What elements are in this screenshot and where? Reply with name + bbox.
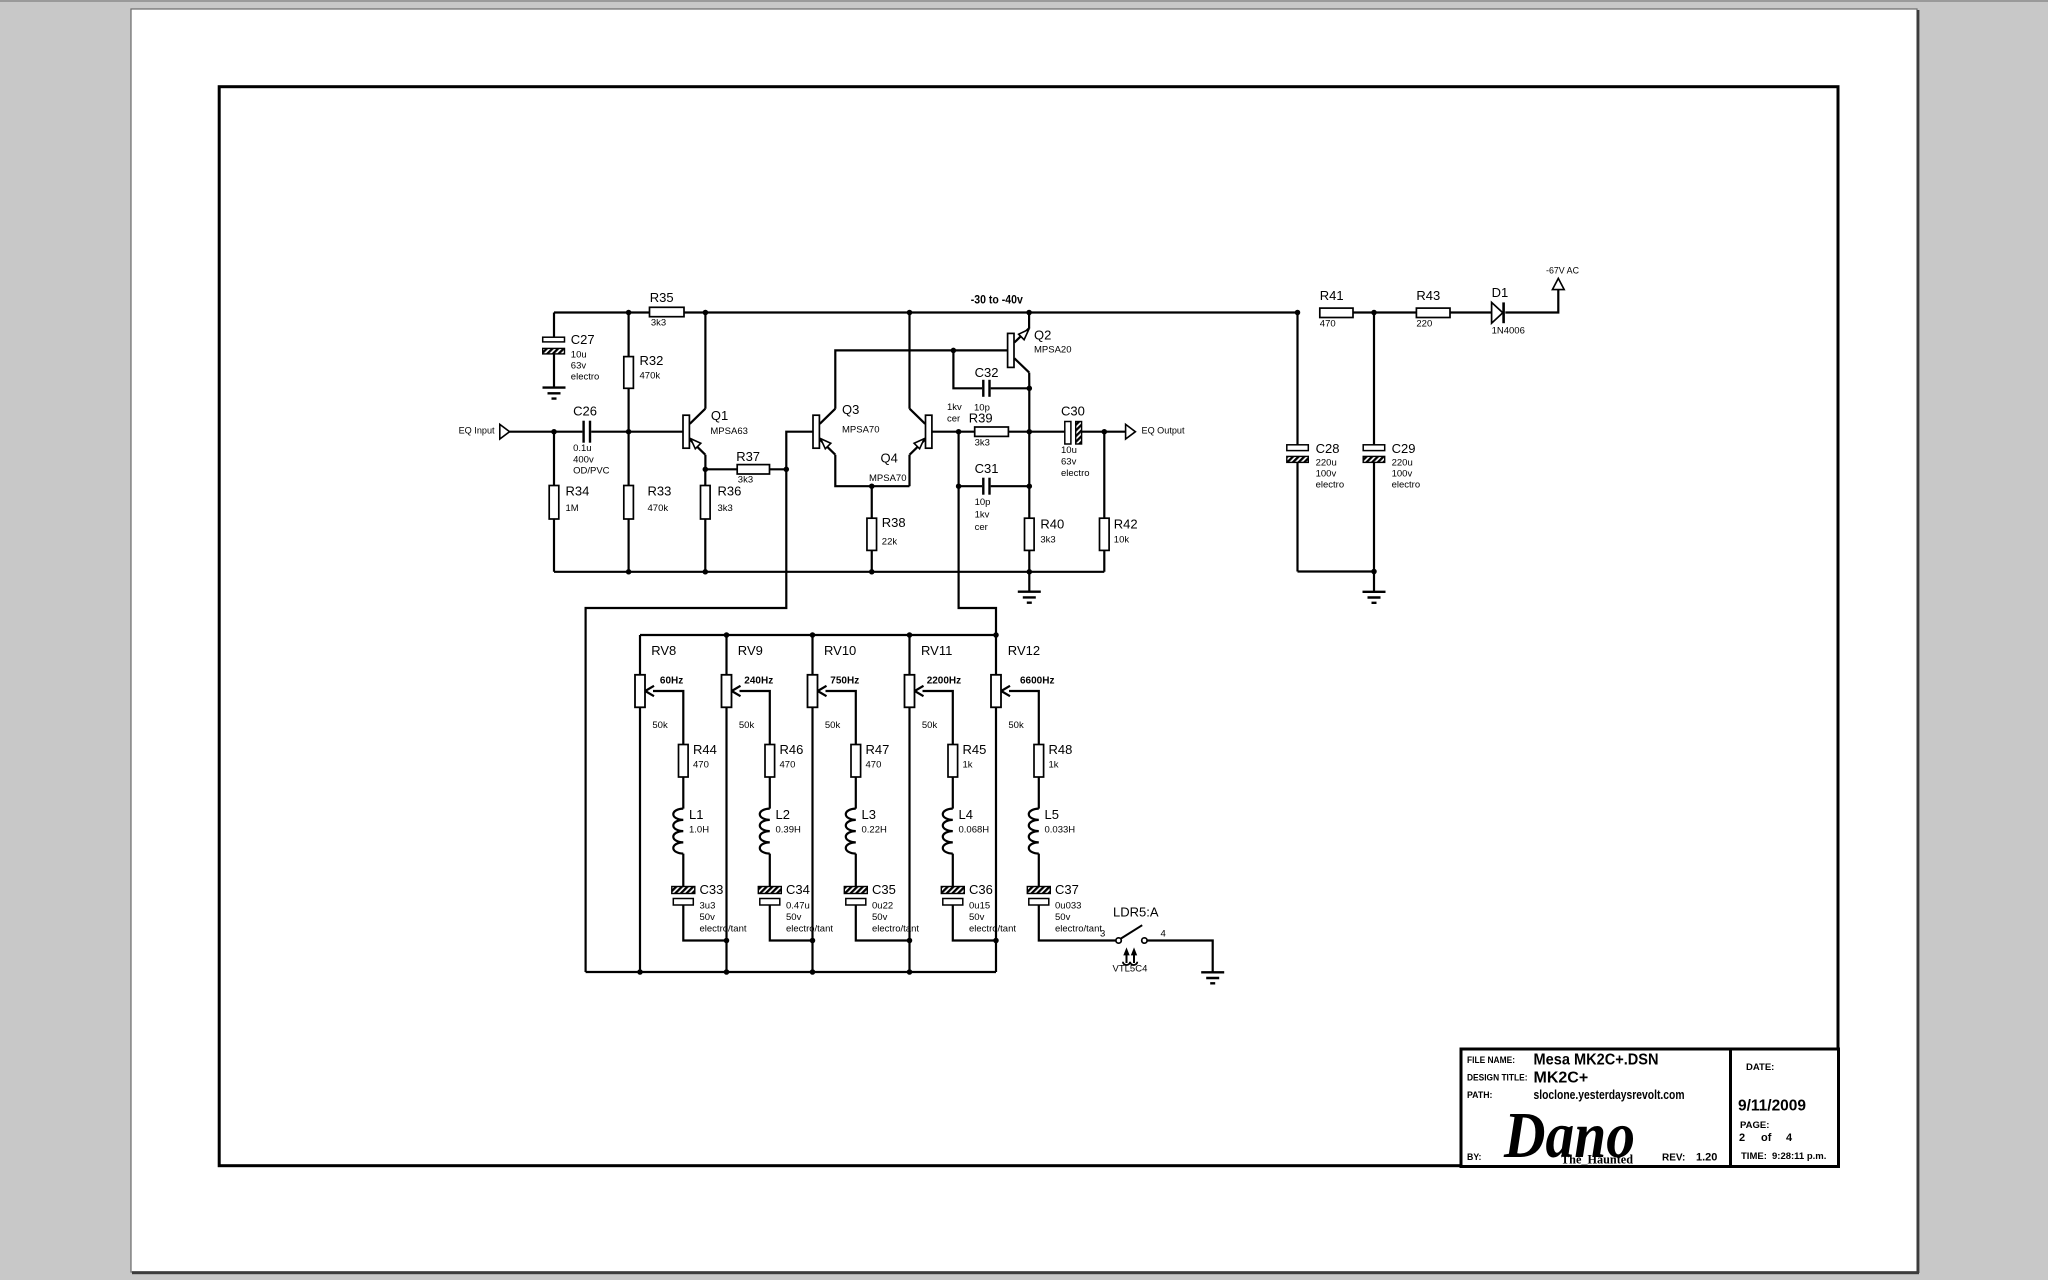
svg-text:electro/tant: electro/tant (786, 923, 833, 934)
wire Q4 emitter lead (908, 455, 910, 487)
wire R37 leads (705, 468, 786, 470)
wire feedback to EQ bottom bus (586, 469, 787, 972)
svg-text:50k: 50k (825, 720, 841, 731)
svg-text:470: 470 (780, 759, 796, 770)
svg-text:470: 470 (693, 759, 709, 770)
svg-text:0.47u: 0.47u (786, 900, 810, 911)
potentiometer RV12 (991, 643, 1054, 731)
resistor R34 (549, 484, 589, 520)
svg-text:PATH:: PATH: (1467, 1090, 1493, 1100)
svg-text:2200Hz: 2200Hz (927, 675, 961, 686)
title block time (1741, 1151, 1826, 1162)
svg-text:C37: C37 (1055, 882, 1079, 897)
wire R-L-C column 5 (1039, 777, 1116, 941)
svg-text:9/11/2009: 9/11/2009 (1738, 1098, 1806, 1115)
svg-text:RV8: RV8 (651, 643, 676, 658)
capacitor C36 (941, 882, 1016, 934)
wire output through C30 (1029, 431, 1125, 433)
svg-text:electro: electro (1061, 468, 1090, 479)
svg-text:9:28:11 p.m.: 9:28:11 p.m. (1772, 1151, 1826, 1162)
svg-text:Q1: Q1 (711, 408, 728, 423)
wire R42 leads (1103, 432, 1105, 572)
svg-text:C27: C27 (571, 332, 595, 347)
svg-text:50v: 50v (1055, 912, 1071, 923)
wire RV10 bottom lead (811, 707, 813, 972)
opto switch LDR5:A (1100, 905, 1166, 944)
capacitor C31 (975, 461, 999, 533)
wire R-L-C column 2 (770, 777, 813, 941)
svg-text:EQ Output: EQ Output (1142, 426, 1185, 437)
wire Q2 emitter to rail (1028, 313, 1030, 329)
capacitor C26 (573, 404, 610, 477)
svg-text:3k3: 3k3 (718, 503, 733, 514)
svg-text:22k: 22k (882, 536, 898, 547)
wire riser to Q3 base (786, 432, 813, 470)
svg-text:R33: R33 (648, 484, 672, 499)
svg-text:C33: C33 (700, 882, 724, 897)
svg-text:470: 470 (866, 759, 882, 770)
wire RV9 top lead (725, 635, 727, 675)
wire RV12 bottom lead (995, 707, 997, 972)
svg-text:3k3: 3k3 (975, 437, 990, 448)
svg-text:400v: 400v (573, 454, 594, 465)
inductor L1 (673, 807, 709, 854)
svg-text:R38: R38 (882, 515, 906, 530)
wire R43 to D1 segment (1450, 311, 1492, 313)
wire RV9 wiper branch (740, 691, 770, 745)
capacitor C34 (758, 882, 833, 934)
svg-text:Q3: Q3 (842, 402, 859, 417)
wire amp stage bottom rail (554, 571, 1104, 573)
svg-text:MPSA63: MPSA63 (710, 426, 748, 437)
wire RV11 top lead (908, 635, 910, 675)
wire RV10 wiper branch (826, 691, 856, 745)
svg-text:PAGE:: PAGE: (1740, 1120, 1769, 1131)
svg-text:1.20: 1.20 (1696, 1152, 1717, 1164)
svg-text:10p: 10p (975, 497, 991, 508)
svg-text:2: 2 (1739, 1132, 1745, 1144)
wire RV9 bottom lead (725, 707, 727, 972)
svg-text:3u3: 3u3 (700, 900, 716, 911)
wire Q3 emitter to bus (835, 455, 909, 487)
svg-text:electro: electro (571, 371, 600, 382)
resistor R46 (765, 742, 803, 777)
svg-text:C28: C28 (1316, 441, 1340, 456)
svg-text:100v: 100v (1392, 468, 1413, 479)
resistor R47 (851, 742, 889, 777)
svg-text:C31: C31 (975, 461, 999, 476)
wire Q4 base (932, 431, 959, 433)
svg-text:MPSA70: MPSA70 (869, 473, 907, 484)
potentiometer RV10 (808, 643, 860, 731)
wire LDR to ground (1147, 941, 1213, 973)
svg-text:50v: 50v (700, 912, 716, 923)
svg-text:63v: 63v (1061, 456, 1077, 467)
svg-text:0.22H: 0.22H (862, 824, 887, 835)
svg-text:electro/tant: electro/tant (969, 923, 1016, 934)
capacitor C29 (1363, 441, 1420, 490)
wire Q1 emitter node (704, 455, 706, 470)
wire C32 leads (953, 350, 1029, 388)
resistor R39 (969, 411, 1009, 449)
svg-text:C36: C36 (969, 882, 993, 897)
svg-text:electro: electro (1392, 479, 1421, 490)
wire drop to EQ filter bank (959, 432, 996, 675)
svg-text:50k: 50k (739, 720, 755, 731)
resistor R37 (736, 449, 769, 485)
resistor R32 (624, 353, 664, 388)
svg-text:The_Haunted: The_Haunted (1561, 1152, 1634, 1167)
wire RV10 top lead (811, 635, 813, 675)
ground at LDR (1201, 972, 1224, 983)
svg-text:C26: C26 (573, 404, 597, 419)
svg-text:220u: 220u (1316, 457, 1337, 468)
wire C29 column (1373, 313, 1375, 572)
ground below C27 (543, 388, 566, 399)
svg-text:FILE NAME:: FILE NAME: (1467, 1055, 1515, 1065)
drawing frame border (219, 87, 1838, 1166)
capacitor C32 (947, 365, 998, 424)
svg-text:4: 4 (1786, 1132, 1793, 1144)
potentiometer RV9 (722, 643, 774, 731)
wire R39 leads (959, 431, 1030, 433)
svg-text:Mesa MK2C+.DSN: Mesa MK2C+.DSN (1534, 1052, 1659, 1069)
EQ Output terminal (1126, 424, 1185, 439)
wire C28 C29 ground bus (1298, 572, 1375, 592)
wire Q3 collector to Q2 base (835, 350, 1007, 408)
svg-text:electro: electro (1316, 479, 1345, 490)
svg-text:0.1u: 0.1u (573, 443, 592, 454)
wire R34 leads (553, 432, 555, 572)
svg-text:C34: C34 (786, 882, 810, 897)
svg-text:50k: 50k (652, 720, 668, 731)
title block by / logo (1467, 1099, 1635, 1172)
resistor R38 (867, 515, 906, 550)
potentiometer RV11 (905, 643, 962, 731)
svg-text:RV9: RV9 (738, 643, 763, 658)
svg-text:R46: R46 (780, 742, 804, 757)
ground below C28 C29 (1363, 592, 1386, 603)
capacitor C28 (1287, 441, 1344, 490)
ground below R40 node (1018, 592, 1041, 603)
svg-text:R44: R44 (693, 742, 717, 757)
svg-text:10u: 10u (1061, 445, 1077, 456)
EQ Input terminal (459, 424, 510, 439)
svg-text:10u: 10u (571, 349, 587, 360)
wire Q4 collector to rail (908, 313, 910, 409)
svg-text:RV11: RV11 (921, 643, 952, 658)
transistor Q3 (813, 402, 880, 455)
svg-text:-67V AC: -67V AC (1546, 266, 1579, 277)
svg-text:3: 3 (1100, 928, 1105, 939)
svg-text:BY:: BY: (1467, 1152, 1482, 1162)
svg-text:470: 470 (1320, 318, 1336, 329)
title block (1461, 1049, 1839, 1167)
title block revision (1662, 1152, 1717, 1164)
net label -30 to -40v (971, 295, 1024, 307)
svg-text:0u15: 0u15 (969, 900, 990, 911)
svg-text:R35: R35 (650, 290, 674, 305)
svg-text:470k: 470k (648, 503, 669, 514)
wire RV12 wiper branch (1009, 691, 1039, 745)
svg-text:electro/tant: electro/tant (872, 923, 919, 934)
wire C28 column (1296, 313, 1298, 572)
wire R36 leads (704, 469, 706, 572)
svg-text:50v: 50v (969, 912, 985, 923)
wire RV11 wiper branch (923, 691, 953, 745)
wire R40 bottom and ground drop (1028, 550, 1030, 591)
svg-text:EQ Input: EQ Input (459, 426, 495, 437)
resistor R42 (1100, 517, 1138, 551)
svg-text:10p: 10p (974, 402, 990, 413)
-67V AC power terminal (1546, 266, 1579, 290)
resistor R44 (679, 742, 717, 777)
wire EQ bank bottom rail (586, 971, 996, 973)
svg-text:4: 4 (1161, 928, 1166, 939)
svg-text:LDR5:A: LDR5:A (1113, 905, 1159, 920)
junction dots (551, 310, 1377, 975)
svg-text:1kv: 1kv (947, 402, 962, 413)
svg-text:0.39H: 0.39H (776, 824, 801, 835)
svg-text:100v: 100v (1316, 468, 1337, 479)
wire C31 leads (959, 485, 1030, 487)
wire R32 leads (627, 313, 629, 432)
svg-text:1k: 1k (963, 759, 973, 770)
svg-text:RV10: RV10 (824, 643, 856, 658)
svg-text:1.0H: 1.0H (689, 824, 709, 835)
svg-text:C30: C30 (1061, 404, 1085, 419)
resistor R35 (650, 290, 685, 328)
wire R-L-C column 4 (953, 777, 996, 941)
svg-text:470k: 470k (640, 370, 661, 381)
svg-text:L2: L2 (776, 807, 790, 822)
svg-text:10k: 10k (1114, 534, 1130, 545)
svg-text:Q4: Q4 (881, 451, 898, 466)
inductor L5 (1029, 807, 1075, 854)
svg-text:50k: 50k (1008, 720, 1024, 731)
transistor Q4 (869, 409, 932, 484)
svg-text:6600Hz: 6600Hz (1020, 675, 1054, 686)
svg-text:MPSA70: MPSA70 (842, 424, 880, 435)
svg-text:220u: 220u (1392, 457, 1413, 468)
wire D1 to -67V AC terminal (1505, 290, 1558, 313)
svg-text:1kv: 1kv (975, 509, 990, 520)
svg-text:3k3: 3k3 (651, 317, 666, 328)
svg-text:-30 to -40v: -30 to -40v (971, 295, 1024, 307)
title block path (1467, 1087, 1685, 1102)
svg-text:R41: R41 (1320, 288, 1344, 303)
svg-text:1N4006: 1N4006 (1492, 325, 1525, 336)
wire R38 leads (871, 486, 873, 572)
svg-text:1k: 1k (1049, 759, 1059, 770)
capacitor C37 (1027, 882, 1102, 934)
svg-text:MPSA20: MPSA20 (1034, 344, 1072, 355)
svg-text:DESIGN TITLE:: DESIGN TITLE: (1467, 1072, 1528, 1082)
wire Q1 collector to rail (704, 313, 706, 409)
svg-text:Q2: Q2 (1034, 328, 1051, 343)
svg-text:0u033: 0u033 (1055, 900, 1081, 911)
resistor R40 (1025, 517, 1065, 551)
svg-text:cer: cer (975, 522, 988, 533)
svg-text:50v: 50v (786, 912, 802, 923)
inductor L2 (760, 807, 801, 854)
capacitor C27 (543, 332, 600, 382)
wire R33 leads (627, 432, 629, 572)
svg-text:R47: R47 (866, 742, 890, 757)
svg-text:R48: R48 (1049, 742, 1073, 757)
svg-text:L1: L1 (689, 807, 703, 822)
wire R41 to R43 segment (1353, 311, 1416, 313)
svg-text:RV12: RV12 (1008, 643, 1040, 658)
svg-text:REV:: REV: (1662, 1152, 1685, 1163)
svg-text:L3: L3 (862, 807, 876, 822)
wire R-L-C column 1 (683, 777, 726, 941)
svg-text:electro/tant: electro/tant (700, 923, 747, 934)
svg-text:R32: R32 (640, 353, 664, 368)
resistor R36 (701, 484, 742, 520)
wire R-L-C column 3 (856, 777, 910, 941)
title block design title (1467, 1070, 1588, 1087)
svg-text:3k3: 3k3 (738, 474, 753, 485)
wire RV8 wiper branch (653, 691, 683, 745)
wire C26 to Q1 base (591, 431, 683, 433)
capacitor C35 (844, 882, 919, 934)
svg-text:MK2C+: MK2C+ (1534, 1070, 1589, 1087)
title block page (1739, 1120, 1793, 1144)
title block date (1738, 1062, 1806, 1115)
svg-text:DATE:: DATE: (1746, 1062, 1774, 1073)
svg-text:R45: R45 (963, 742, 987, 757)
svg-text:50k: 50k (922, 720, 938, 731)
svg-text:C35: C35 (872, 882, 896, 897)
svg-text:R43: R43 (1416, 288, 1440, 303)
inductor L4 (943, 807, 989, 854)
svg-text:D1: D1 (1492, 285, 1509, 300)
svg-text:cer: cer (947, 413, 960, 424)
svg-text:3k3: 3k3 (1040, 534, 1055, 545)
svg-text:0.068H: 0.068H (959, 824, 990, 835)
wire EQ bank top rail (640, 634, 996, 636)
resistor R33 (624, 484, 672, 520)
svg-text:R36: R36 (718, 484, 742, 499)
title block file name (1467, 1052, 1659, 1069)
svg-text:C29: C29 (1392, 441, 1416, 456)
svg-text:0.033H: 0.033H (1045, 824, 1076, 835)
wire RV11 bottom lead (908, 707, 910, 972)
transistor Q2 (1008, 328, 1072, 373)
potentiometer RV8 (635, 643, 683, 731)
svg-text:VTL5C4: VTL5C4 (1113, 963, 1148, 974)
wire -30 to -40v supply rail (554, 311, 1298, 313)
svg-text:TIME:: TIME: (1741, 1151, 1767, 1162)
wire Q2 collector column (1028, 373, 1030, 519)
wire RV8 bottom lead (639, 707, 641, 972)
svg-text:C32: C32 (975, 365, 999, 380)
resistor R43 (1416, 288, 1450, 329)
resistor R41 (1320, 288, 1353, 329)
svg-text:0u22: 0u22 (872, 900, 893, 911)
wire C27 leads (553, 313, 555, 388)
svg-text:L5: L5 (1045, 807, 1059, 822)
svg-text:L4: L4 (959, 807, 973, 822)
resistor R48 (1034, 742, 1072, 777)
diode D1 (1492, 285, 1525, 336)
svg-text:63v: 63v (571, 360, 587, 371)
svg-text:R37: R37 (736, 449, 760, 464)
svg-text:R42: R42 (1114, 517, 1138, 532)
opto coupler VTL5C4 light arrows (1113, 949, 1148, 975)
svg-text:R40: R40 (1040, 517, 1064, 532)
svg-text:220: 220 (1416, 318, 1432, 329)
svg-text:240Hz: 240Hz (744, 675, 773, 686)
svg-text:50v: 50v (872, 912, 888, 923)
svg-text:OD/PVC: OD/PVC (573, 465, 610, 476)
svg-text:1M: 1M (566, 503, 579, 514)
svg-text:750Hz: 750Hz (830, 675, 859, 686)
svg-text:of: of (1761, 1132, 1772, 1144)
svg-text:electro/tant: electro/tant (1055, 923, 1102, 934)
inductor L3 (846, 807, 887, 854)
svg-text:R34: R34 (566, 484, 590, 499)
wire RV8 top lead (639, 635, 641, 675)
capacitor C33 (672, 882, 747, 934)
svg-text:60Hz: 60Hz (660, 675, 683, 686)
capacitor C30 (1061, 404, 1090, 479)
resistor R45 (948, 742, 986, 777)
wire EQ input to C26 (510, 431, 583, 433)
transistor Q1 (683, 408, 748, 455)
